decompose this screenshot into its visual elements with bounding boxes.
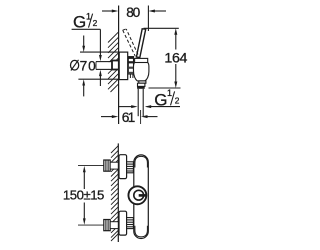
dimension 164 extension top [144,27,179,29]
hot inlet centerline (front view top) [78,165,104,167]
lever handle dashed alternate position [123,29,139,56]
body cap seam top [135,156,148,167]
knob outer circle (front view) [128,186,146,204]
body-side union nut bottom (front view) [127,218,134,229]
body cap (side view) [135,58,148,62]
knob index bar [139,194,146,197]
svg-text:G: G [154,91,167,110]
svg-text:2: 2 [175,95,180,105]
dimension 61 line left [101,116,113,118]
body-side union nut top (front view) [127,162,134,173]
dimension Ø70 arrow top [83,36,85,47]
cold inlet centerline (front view bottom) [78,224,104,226]
mixer body capsule (front view) [134,155,149,239]
connector stack between rosette and body [128,57,133,74]
dimension 80 extension line [147,6,149,32]
G 1/2 label bottom arrows [119,106,133,108]
inlet pipe bottom (front view) [110,222,118,229]
knob inner circle [134,190,144,200]
dimension 80 line left [102,10,113,12]
wall line (front view) [117,143,119,242]
outlet pipe centerline [140,110,142,124]
dimension Ø70 arrow bottom [82,79,85,85]
inlet pipe top (front view) [110,162,118,169]
wall hatching (side view) [108,32,118,92]
svg-text:G: G [73,12,86,31]
rosette top (front view) [119,155,127,179]
dimension Ø70 extension top [80,51,119,53]
wall line (side view) [118,6,120,125]
dimension Ø70 extension bottom [78,78,118,80]
union inlet pipe (side view) [96,62,112,69]
G 1/2 label top leader [72,28,101,30]
svg-text:1: 1 [167,88,172,98]
dimension 150±15 line with arrows [83,171,85,189]
svg-text:80: 80 [126,5,140,20]
hex nut bottom (front view) [104,220,110,231]
dimension 164 extension bottom [149,87,181,89]
svg-text:150±15: 150±15 [63,188,105,203]
outlet pipe (side view) [137,89,139,116]
dimension 61 line right [141,115,148,118]
outlet dark band [137,86,145,88]
body cap seam bottom [135,226,148,237]
rosette bottom (front view) [119,211,127,235]
escutcheon rosette (side view) [119,52,128,80]
wall hatching (front view) [111,146,118,241]
svg-text:164: 164 [164,50,187,66]
union square nut in wall (side view) [112,61,119,70]
dimension 80 line right [153,10,166,12]
outlet neck (side view) [139,81,146,83]
svg-text:70: 70 [80,58,97,73]
hex nut top (front view) [104,160,110,171]
text Ø70 [71,60,79,70]
lever handle solid (side view) [136,29,145,58]
svg-text:61: 61 [122,110,136,125]
mixer body (side view) [134,63,149,81]
svg-text:2: 2 [93,18,98,28]
dimension 164 line with arrows [175,34,177,50]
